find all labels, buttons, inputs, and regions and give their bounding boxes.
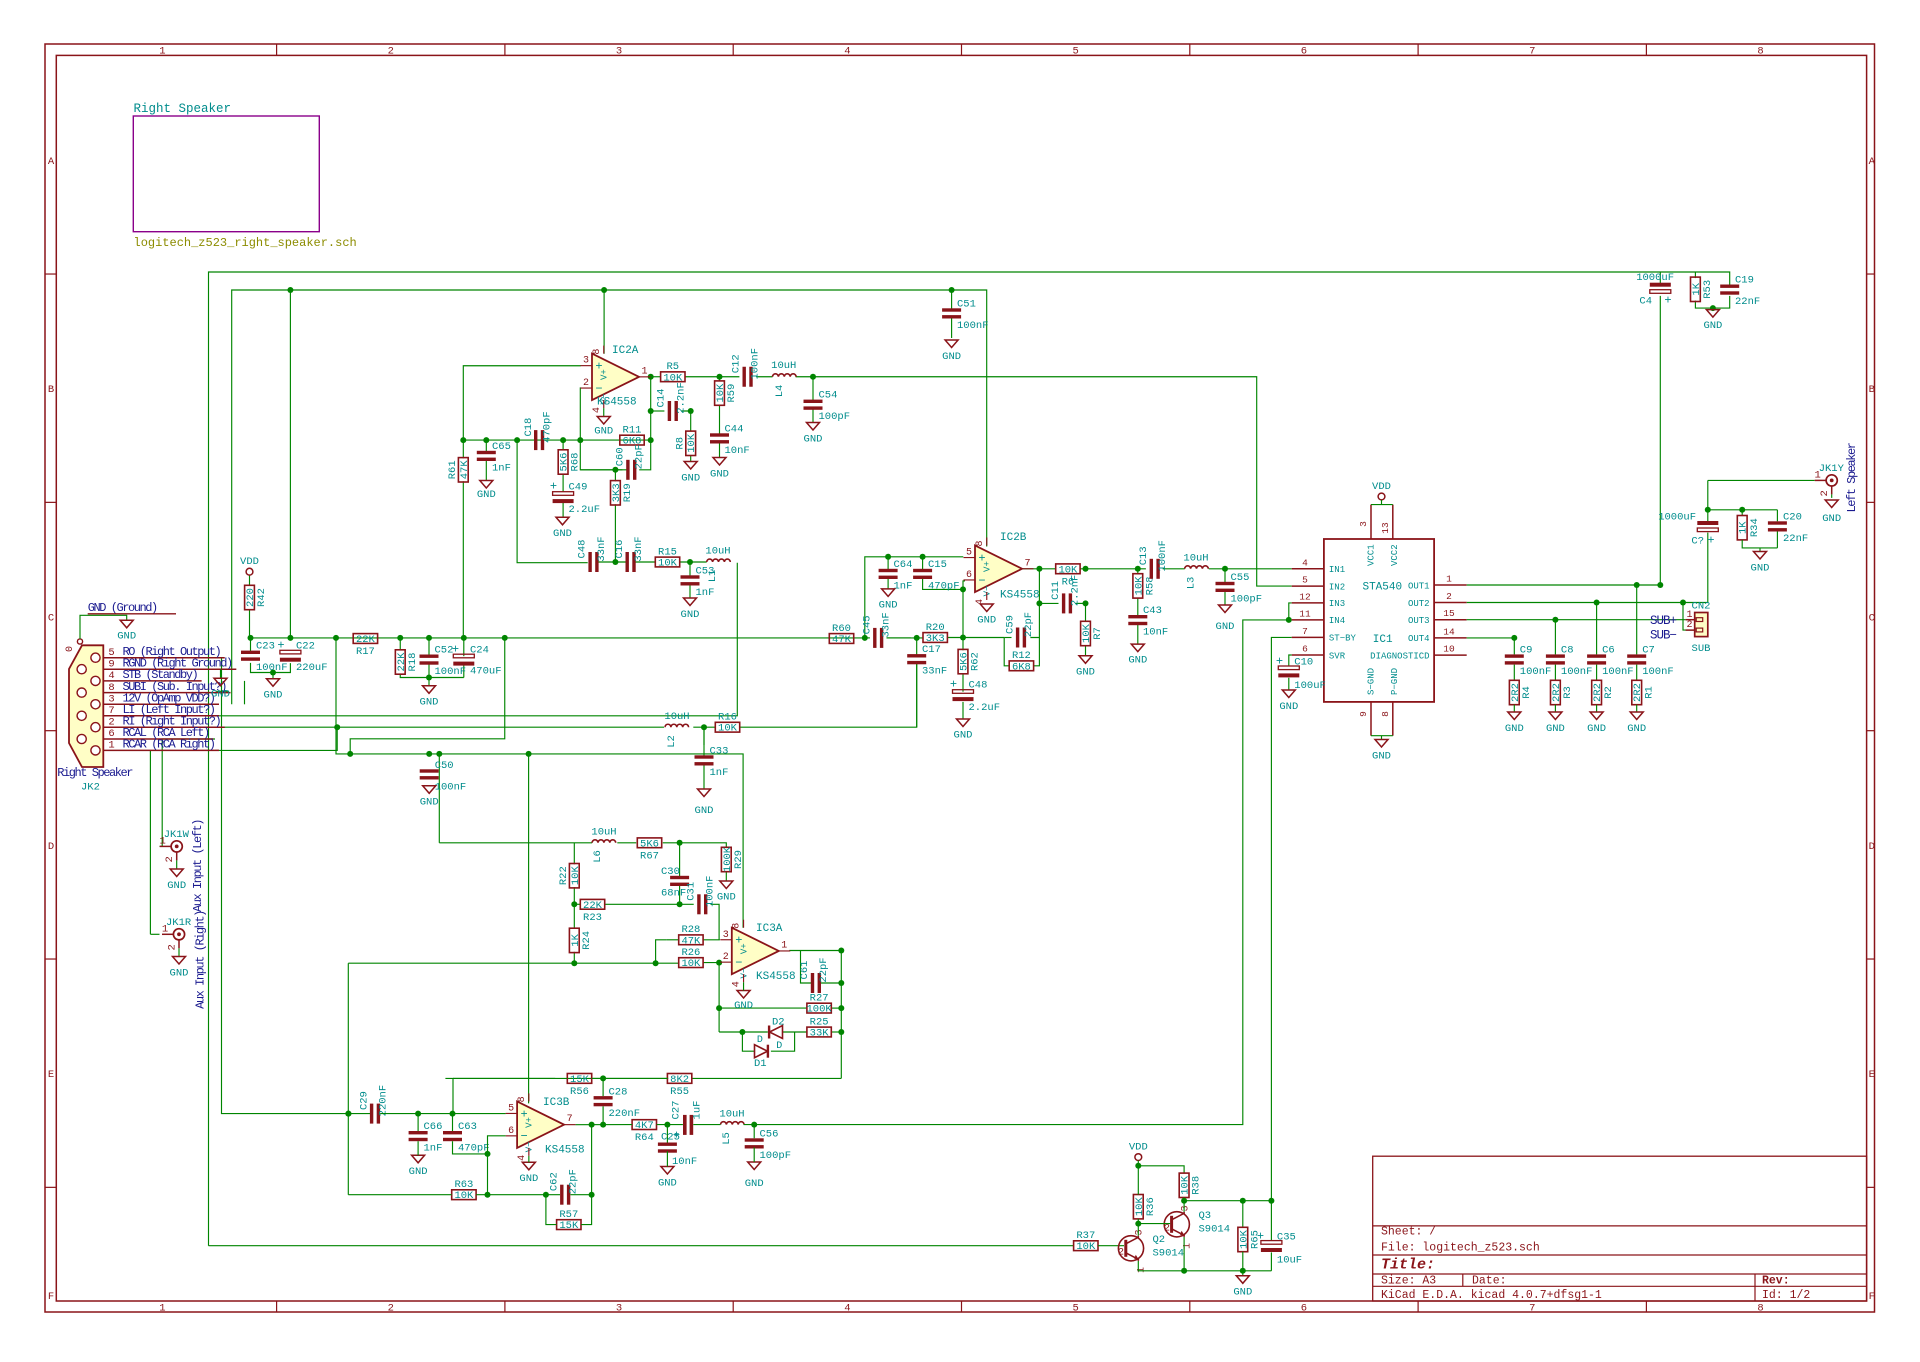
svg-text:C35: C35 [1277,1232,1296,1244]
svg-text:100nF: 100nF [705,876,717,908]
svg-text:1nF: 1nF [894,581,913,593]
svg-text:R16: R16 [718,712,737,724]
svg-text:3: 3 [616,45,622,57]
svg-text:8: 8 [1757,45,1763,57]
svg-text:470uF: 470uF [470,666,502,678]
svg-text:7: 7 [108,705,114,717]
svg-text:10uH: 10uH [719,1109,744,1121]
svg-text:100nF: 100nF [1157,540,1169,572]
svg-text:2: 2 [167,944,179,950]
svg-text:100K: 100K [806,1004,832,1016]
svg-text:47K: 47K [832,634,852,646]
svg-text:C6: C6 [1602,645,1615,657]
svg-text:R26: R26 [681,947,700,959]
svg-text:R1: R1 [1643,686,1655,699]
svg-text:JK1W: JK1W [164,829,190,841]
svg-text:Aux Input (Left): Aux Input (Left) [191,820,205,912]
svg-text:GND: GND [1279,701,1298,713]
svg-text:GND: GND [519,1173,538,1185]
svg-text:IN4: IN4 [1329,616,1345,626]
svg-text:Q3: Q3 [1199,1210,1212,1222]
svg-text:GND: GND [477,489,496,501]
svg-text:VDD: VDD [1129,1142,1148,1154]
svg-text:KS4558: KS4558 [756,971,796,983]
svg-text:Id: 1/2: Id: 1/2 [1762,1289,1810,1302]
svg-text:Sheet: /: Sheet: / [1381,1226,1436,1239]
svg-text:IN2: IN2 [1329,582,1345,592]
svg-text:3: 3 [1180,1205,1191,1211]
svg-text:GND: GND [710,469,729,481]
svg-text:3: 3 [616,1302,622,1314]
svg-text:R18: R18 [407,653,419,672]
svg-text:E: E [48,1069,54,1081]
svg-text:P−GND: P−GND [1390,668,1400,695]
svg-text:VDD: VDD [1372,481,1391,493]
svg-text:100nF: 100nF [435,782,467,794]
svg-text:KS4558: KS4558 [545,1145,585,1157]
svg-text:GND: GND [594,426,613,438]
svg-text:0: 0 [65,646,76,652]
svg-text:C?: C? [1691,536,1704,548]
svg-text:100pF: 100pF [1231,594,1263,606]
svg-text:D: D [1869,841,1875,853]
svg-text:10uH: 10uH [591,827,616,839]
svg-text:C27: C27 [671,1101,683,1120]
svg-text:1000uF: 1000uF [1658,512,1696,524]
svg-text:E: E [1869,1069,1875,1081]
svg-text:3: 3 [1358,521,1369,527]
svg-text:22pF: 22pF [568,1169,580,1194]
svg-text:GND: GND [211,689,230,701]
svg-text:R19: R19 [622,483,634,502]
svg-text:2: 2 [388,45,394,57]
svg-text:4: 4 [108,670,114,682]
svg-text:7: 7 [1302,626,1308,637]
svg-text:DIAGNOSTICD: DIAGNOSTICD [1370,651,1429,661]
svg-text:R68: R68 [570,453,582,472]
svg-text:C51: C51 [957,299,976,311]
svg-text:V+: V+ [525,1117,535,1128]
svg-text:IC1: IC1 [1373,634,1393,646]
svg-text:File: logitech_z523.sch: File: logitech_z523.sch [1381,1242,1540,1255]
svg-text:22K: 22K [583,900,603,912]
svg-text:33K: 33K [810,1028,830,1040]
svg-text:100pF: 100pF [760,1150,792,1162]
svg-text:8: 8 [1757,1302,1763,1314]
svg-text:SUB+: SUB+ [1650,614,1677,628]
svg-text:GND: GND [1216,621,1235,633]
svg-text:3: 3 [583,356,589,367]
svg-text:C59: C59 [1004,615,1016,634]
svg-text:VCC2: VCC2 [1390,544,1400,566]
svg-text:Date:: Date: [1472,1275,1507,1288]
svg-text:4: 4 [517,1155,528,1161]
svg-text:10nF: 10nF [1143,627,1168,639]
svg-text:GND: GND [420,697,439,709]
svg-text:GND: GND [1128,655,1147,667]
svg-text:6: 6 [966,570,972,581]
svg-text:100nF: 100nF [1520,666,1552,678]
svg-text:C50: C50 [435,760,454,772]
svg-text:+: + [1707,534,1714,548]
svg-text:GND: GND [954,730,973,742]
svg-text:C44: C44 [725,424,744,436]
svg-text:Title:: Title: [1381,1257,1435,1274]
svg-text:R5: R5 [666,361,679,373]
svg-text:IC2A: IC2A [612,345,639,357]
svg-text:R67: R67 [640,850,659,862]
svg-text:R12: R12 [1012,650,1031,662]
svg-text:+: + [452,642,459,656]
svg-text:R55: R55 [670,1086,689,1098]
svg-text:GND: GND [170,968,189,980]
svg-text:22nF: 22nF [1783,533,1808,545]
svg-text:C28: C28 [609,1086,628,1098]
svg-text:GND: GND [1751,563,1770,575]
svg-text:1nF: 1nF [492,463,511,475]
svg-text:R24: R24 [581,931,593,950]
svg-text:2: 2 [388,1302,394,1314]
svg-text:C45: C45 [862,615,874,634]
svg-text:IN3: IN3 [1329,599,1345,609]
svg-text:4: 4 [732,981,743,987]
svg-text:L1: L1 [707,570,719,583]
svg-text:3: 3 [723,930,729,941]
svg-text:R57: R57 [559,1209,578,1221]
svg-text:33nF: 33nF [633,536,645,561]
svg-text:JK2: JK2 [81,782,100,794]
svg-text:1: 1 [159,45,165,57]
svg-text:C54: C54 [819,390,838,402]
svg-text:R42: R42 [256,588,268,607]
svg-text:100nF: 100nF [1642,666,1674,678]
svg-text:C16: C16 [614,540,626,559]
svg-text:1nF: 1nF [696,587,715,599]
svg-text:GND: GND [804,434,823,446]
svg-text:22pF: 22pF [634,444,646,469]
svg-text:2.2uF: 2.2uF [569,504,601,516]
svg-text:2: 2 [164,856,176,862]
svg-text:R20: R20 [926,622,945,634]
svg-text:15: 15 [1443,608,1455,619]
svg-text:47K: 47K [681,935,701,947]
svg-text:3: 3 [108,694,114,706]
svg-text:C60: C60 [615,447,627,466]
svg-text:4: 4 [844,1302,850,1314]
svg-text:C48: C48 [577,540,589,559]
svg-text:S−GND: S−GND [1366,668,1376,695]
svg-text:GND: GND [879,600,898,612]
svg-text:10K: 10K [454,1190,474,1202]
svg-text:6: 6 [108,728,114,740]
svg-text:GND: GND [977,615,996,627]
svg-text:2.2nF: 2.2nF [676,382,688,414]
svg-text:B: B [48,384,54,396]
svg-text:R11: R11 [623,425,642,437]
svg-text:OUT2: OUT2 [1408,599,1430,609]
svg-text:10K: 10K [681,958,701,970]
svg-text:VDD: VDD [240,556,259,568]
svg-text:KS4558: KS4558 [597,397,637,409]
svg-text:C61: C61 [799,961,811,980]
svg-text:8: 8 [1380,711,1391,717]
svg-text:GND: GND [745,1178,764,1190]
svg-text:8: 8 [108,682,114,694]
svg-text:V+: V+ [600,369,610,380]
svg-text:SVR: SVR [1329,651,1346,661]
svg-text:100nF: 100nF [1602,666,1634,678]
svg-text:220nF: 220nF [609,1108,641,1120]
svg-text:1: 1 [781,940,787,951]
svg-text:10uH: 10uH [1183,553,1208,565]
svg-text:12: 12 [1299,591,1311,602]
svg-text:Left Speaker: Left Speaker [1845,442,1859,512]
svg-text:C64: C64 [894,559,913,571]
svg-text:R37: R37 [1076,1230,1095,1242]
svg-text:IC3B: IC3B [543,1097,570,1109]
svg-text:V+: V+ [983,561,993,572]
svg-text:Size: A3: Size: A3 [1381,1275,1436,1288]
svg-text:R59: R59 [726,384,738,403]
svg-text:10K: 10K [686,433,698,453]
svg-text:15K: 15K [559,1220,579,1232]
svg-text:R17: R17 [356,646,375,658]
svg-text:+: + [673,1129,680,1143]
svg-text:SUB: SUB [1692,643,1711,655]
svg-text:GND: GND [734,1000,753,1012]
svg-text:22pF: 22pF [818,957,830,982]
svg-text:2: 2 [1164,1224,1170,1235]
svg-text:R4: R4 [1521,686,1533,699]
svg-text:S9014: S9014 [1199,1224,1231,1236]
svg-text:C19: C19 [1735,275,1754,287]
svg-text:KiCad E.D.A. kicad 4.0.7+dfsg: KiCad E.D.A. kicad 4.0.7+dfsg1-1 [1381,1289,1602,1302]
svg-text:RCAR (RCA Right): RCAR (RCA Right) [123,738,215,752]
svg-text:22nF: 22nF [1735,296,1760,308]
svg-text:JK1R: JK1R [166,917,192,929]
svg-text:R22: R22 [558,866,570,885]
svg-text:R23: R23 [583,912,602,924]
svg-text:C49: C49 [569,482,588,494]
svg-text:C: C [1869,613,1875,625]
svg-text:A: A [48,156,55,168]
svg-text:R64: R64 [635,1132,654,1144]
svg-text:C63: C63 [458,1121,477,1133]
svg-text:10uH: 10uH [664,711,689,723]
svg-text:GND: GND [117,631,136,643]
svg-text:2: 2 [1686,620,1692,631]
svg-text:C24: C24 [470,644,489,656]
svg-text:1nF: 1nF [424,1143,443,1155]
svg-text:9: 9 [1358,711,1369,717]
svg-text:R2: R2 [1603,686,1615,699]
svg-text:100nF: 100nF [957,320,989,332]
svg-text:2: 2 [1118,1248,1124,1259]
svg-text:470pF: 470pF [928,581,960,593]
svg-text:C9: C9 [1520,645,1533,657]
svg-text:7: 7 [1024,558,1030,569]
svg-text:8K2: 8K2 [670,1074,689,1086]
svg-text:Right Speaker: Right Speaker [134,102,232,116]
svg-text:GND: GND [658,1178,677,1190]
svg-text:GND: GND [1233,1287,1252,1299]
svg-text:D2: D2 [772,1017,785,1029]
svg-text:10K: 10K [718,723,738,735]
svg-text:C48: C48 [969,680,988,692]
svg-text:L6: L6 [592,850,604,863]
svg-text:C56: C56 [760,1129,779,1141]
svg-text:10uH: 10uH [705,546,730,558]
svg-text:33nF: 33nF [881,612,893,637]
svg-text:C15: C15 [928,559,947,571]
svg-text:C22: C22 [296,641,315,653]
svg-text:R8: R8 [674,437,686,450]
svg-text:1: 1 [641,366,647,377]
svg-text:C30: C30 [661,866,680,878]
svg-text:+: + [1664,294,1671,308]
svg-text:OUT3: OUT3 [1408,616,1430,626]
svg-text:R61: R61 [447,460,459,479]
svg-text:GND: GND [1505,723,1524,735]
svg-text:5: 5 [508,1103,514,1114]
svg-text:10K: 10K [570,866,582,886]
svg-text:V−: V− [525,1141,535,1152]
svg-text:R53: R53 [1702,280,1714,299]
svg-text:S9014: S9014 [1153,1248,1185,1260]
svg-text:GND: GND [1587,723,1606,735]
svg-text:C13: C13 [1138,546,1150,565]
svg-text:C33: C33 [710,746,729,758]
svg-text:1: 1 [159,1302,165,1314]
svg-text:15K: 15K [570,1074,590,1086]
svg-text:GND: GND [695,805,714,817]
svg-text:GND: GND [1372,751,1391,763]
svg-text:10uF: 10uF [1277,1255,1302,1267]
svg-text:ST−BY: ST−BY [1329,634,1357,644]
svg-text:1: 1 [1686,610,1692,621]
svg-text:GND: GND [1546,723,1565,735]
svg-text:33nF: 33nF [596,536,608,561]
svg-text:22pF: 22pF [1023,612,1035,637]
svg-text:R25: R25 [810,1016,829,1028]
svg-text:C4: C4 [1639,296,1652,308]
svg-text:2: 2 [583,378,589,389]
svg-text:1: 1 [1446,574,1452,585]
svg-text:C29: C29 [358,1091,370,1110]
svg-text:68nF: 68nF [661,888,686,900]
svg-text:GND: GND [942,351,961,363]
svg-text:100nF: 100nF [1561,666,1593,678]
svg-text:B: B [1869,384,1875,396]
svg-text:8: 8 [592,349,603,355]
svg-text:2: 2 [108,716,114,728]
svg-text:6: 6 [1302,644,1308,655]
svg-text:R60: R60 [832,623,851,635]
svg-text:R36: R36 [1145,1197,1157,1216]
svg-text:7: 7 [1529,1302,1535,1314]
svg-text:470pF: 470pF [542,411,554,443]
svg-text:R34: R34 [1749,518,1761,537]
svg-text:GND: GND [264,690,283,702]
svg-text:D: D [757,1035,763,1046]
svg-text:C55: C55 [1231,572,1250,584]
svg-text:logitech_z523_right_speaker.sc: logitech_z523_right_speaker.sch [134,236,357,250]
svg-text:R58: R58 [1144,576,1156,595]
svg-text:Aux Input (Right): Aux Input (Right) [193,911,207,1009]
svg-text:D: D [48,841,54,853]
svg-text:100pF: 100pF [819,411,851,423]
svg-text:L5: L5 [721,1132,733,1145]
svg-text:R7: R7 [1092,627,1104,640]
svg-text:10nF: 10nF [725,445,750,457]
svg-text:C52: C52 [435,644,454,656]
svg-text:+: + [277,639,284,653]
svg-text:4: 4 [1302,557,1308,568]
svg-text:100nF: 100nF [435,666,467,678]
svg-text:GND (Ground): GND (Ground) [88,601,157,615]
svg-text:2: 2 [1446,591,1452,602]
svg-text:7: 7 [1529,45,1535,57]
svg-text:R29: R29 [733,850,745,869]
svg-text:3: 3 [1135,1229,1146,1235]
svg-text:R63: R63 [454,1179,473,1191]
svg-text:C17: C17 [922,644,941,656]
svg-text:C: C [48,613,54,625]
svg-text:GND: GND [420,797,439,809]
svg-text:3K3: 3K3 [926,633,945,645]
svg-text:R28: R28 [681,924,700,936]
svg-text:GND: GND [681,609,700,621]
svg-text:2.2uF: 2.2uF [969,702,1001,714]
svg-text:F: F [1869,1291,1875,1303]
svg-text:GND: GND [681,473,700,485]
svg-text:5: 5 [1072,1302,1078,1314]
svg-text:7: 7 [567,1114,573,1125]
svg-text:OUT4: OUT4 [1408,634,1430,644]
svg-text:10nF: 10nF [672,1156,697,1168]
svg-text:GND: GND [717,892,736,904]
svg-text:6K8: 6K8 [1012,661,1031,673]
svg-text:C65: C65 [492,441,511,453]
svg-text:+: + [550,480,557,494]
svg-text:C12: C12 [731,354,743,373]
svg-text:VCC1: VCC1 [1366,544,1376,566]
svg-text:D: D [776,1041,782,1052]
svg-text:1000uF: 1000uF [1636,272,1674,284]
svg-text:10K: 10K [658,558,678,570]
svg-text:C66: C66 [424,1121,443,1133]
svg-text:5: 5 [1302,575,1308,586]
svg-text:2: 2 [1819,490,1831,496]
svg-text:V−: V− [983,586,993,597]
svg-text:SUB−: SUB− [1650,628,1677,642]
svg-text:1uF: 1uF [692,1101,704,1120]
svg-text:GND: GND [1627,723,1646,735]
svg-text:+: + [1257,1230,1264,1244]
svg-text:10uH: 10uH [771,360,796,372]
svg-text:6: 6 [508,1126,514,1137]
svg-text:R27: R27 [810,993,829,1005]
svg-text:GND: GND [1076,667,1095,679]
svg-text:100nF: 100nF [256,662,288,674]
svg-text:220uF: 220uF [296,662,328,674]
svg-text:IN1: IN1 [1329,565,1345,575]
svg-text:GND: GND [167,880,186,892]
svg-text:Q2: Q2 [1153,1234,1166,1246]
svg-text:R38: R38 [1191,1176,1203,1195]
svg-text:Right Speaker: Right Speaker [57,766,133,780]
svg-text:L3: L3 [1186,577,1198,590]
